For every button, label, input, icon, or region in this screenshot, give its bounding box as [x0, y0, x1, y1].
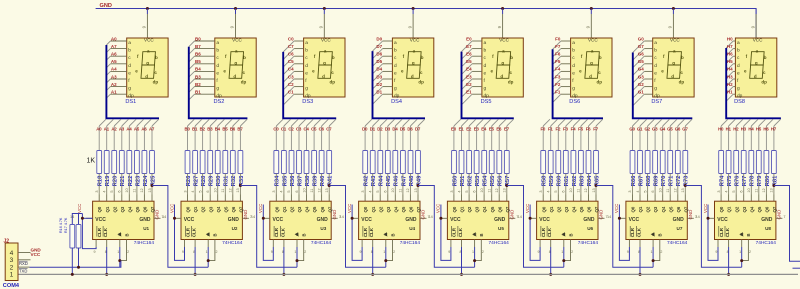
svg-text:74HC164: 74HC164	[667, 240, 688, 246]
svg-text:R34: R34	[275, 175, 281, 186]
svg-text:C3: C3	[296, 126, 302, 131]
pin 7 of U6	[598, 217, 605, 219]
junction R17 RXD line	[77, 266, 80, 269]
resistor R41	[327, 151, 332, 174]
pin 6 of U5	[476, 195, 478, 202]
svg-text:GND: GND	[243, 210, 248, 220]
svg-text:Q0: Q0	[186, 206, 191, 212]
svg-text:Q3: Q3	[653, 206, 658, 212]
resistor R19	[104, 151, 109, 174]
wire cascade U3 to U4	[329, 186, 386, 268]
resistor R64	[586, 151, 591, 174]
svg-text:Q2: Q2	[556, 206, 561, 212]
svg-text:VCC: VCC	[670, 38, 680, 43]
bus entry C2 DS3	[283, 87, 294, 98]
pin e of DS5	[472, 70, 482, 72]
bus entry B1 at resistor R27	[195, 119, 202, 126]
junction CLK U3	[282, 273, 285, 276]
bus entry H4 at resistor R78	[751, 119, 758, 126]
svg-text:A2: A2	[111, 126, 117, 131]
wire bus to resistor R51	[461, 126, 463, 151]
svg-text:R43: R43	[371, 175, 377, 186]
pin c of DS5	[472, 55, 482, 57]
pin 14 of U8	[708, 217, 715, 219]
svg-text:D4: D4	[392, 126, 398, 131]
svg-text:C0: C0	[273, 126, 279, 131]
resistor R22	[127, 151, 132, 174]
bus entry G2 DS7	[633, 87, 645, 99]
svg-text:R58: R58	[542, 175, 548, 186]
svg-text:C6: C6	[319, 126, 325, 131]
wire resistor R48 to U4	[409, 174, 411, 195]
wire bus to resistor R61	[565, 126, 567, 151]
bus entry G0 DS7	[633, 41, 645, 53]
svg-text:12: 12	[406, 188, 410, 192]
svg-text:A6: A6	[141, 126, 147, 131]
svg-text:R75: R75	[727, 175, 733, 186]
bus entry C2 at resistor R36	[291, 119, 298, 126]
pin names Q0-Q7 of U6	[541, 206, 599, 212]
svg-text:GND: GND	[421, 210, 426, 220]
wire B loop of U2	[208, 247, 215, 261]
pin d of DS3	[294, 63, 304, 65]
pin d of DS8	[733, 63, 735, 65]
wire resistor R40 to U3	[321, 174, 323, 195]
svg-text:H6: H6	[763, 126, 769, 131]
svg-text:3: 3	[95, 190, 99, 192]
resistor R21	[119, 151, 124, 174]
wire CLK of U5 to clock rail	[461, 247, 463, 274]
pin g of DS3	[294, 86, 304, 88]
svg-text:Q3: Q3	[208, 206, 213, 212]
wire bus to resistor R66	[632, 126, 634, 151]
bus entry B7 DS2	[189, 49, 195, 55]
svg-text:b: b	[510, 55, 513, 60]
svg-text:74HC164: 74HC164	[489, 240, 510, 246]
wire bus to resistor R22	[128, 126, 130, 151]
svg-text:13: 13	[148, 188, 152, 192]
wire resistor R47 to U4	[402, 174, 404, 195]
pin c of DS2	[195, 55, 215, 57]
pin 9 of U6	[539, 240, 541, 248]
bus entry E1 DS5	[462, 94, 473, 105]
svg-text:5: 5	[287, 190, 291, 192]
svg-text:7: 7	[783, 215, 785, 219]
resistor R75	[726, 151, 731, 174]
svg-text:R66: R66	[631, 175, 637, 186]
svg-text:VCC: VCC	[273, 217, 284, 223]
pin f of DS6	[561, 78, 571, 80]
svg-text:14: 14	[607, 215, 611, 219]
pin 1 of U2	[207, 240, 209, 248]
wire resistor R69 to U7	[654, 174, 656, 195]
svg-text:G4: G4	[638, 67, 645, 72]
bus entry H5 DS8	[726, 64, 733, 71]
wire R16 bottom to clock rail	[71, 248, 73, 274]
bus entry F5 at resistor R63	[581, 119, 588, 126]
svg-text:Q0: Q0	[452, 206, 457, 212]
bus entry B0 DS2	[189, 41, 195, 47]
segment figure of DS3	[318, 52, 332, 79]
bus entry A5 DS1	[106, 64, 110, 68]
svg-text:g: g	[654, 87, 657, 92]
svg-text:R39: R39	[313, 175, 319, 186]
svg-text:74HC164: 74HC164	[222, 240, 243, 246]
svg-text:H6: H6	[727, 52, 733, 57]
pin 12 of U2	[232, 195, 234, 202]
bus entry C5 DS3	[283, 64, 294, 75]
wire bus to resistor R52	[468, 126, 470, 151]
svg-text:U2: U2	[232, 226, 238, 231]
wire resistor R25 to U1	[151, 174, 153, 195]
svg-text:R60: R60	[557, 176, 563, 187]
pin 13 of U8	[773, 195, 775, 202]
wire VCC drop to DS4	[412, 9, 414, 15]
bus entry F6 at resistor R64	[589, 119, 596, 126]
svg-text:Q1: Q1	[105, 206, 110, 212]
svg-text:A: A	[562, 233, 567, 236]
svg-text:9: 9	[360, 250, 362, 254]
svg-text:A: A	[740, 233, 745, 236]
svg-text:G7: G7	[638, 44, 645, 49]
svg-text:G1: G1	[638, 90, 645, 95]
segment labels of DS8	[744, 48, 767, 84]
svg-text:b: b	[654, 48, 657, 54]
bus for DS2	[189, 47, 248, 119]
pin 6 of U7	[654, 195, 656, 202]
pin 8 of U1	[106, 240, 108, 248]
svg-text:Q4: Q4	[216, 206, 221, 212]
wire VCC net U4	[352, 205, 362, 261]
resistor R45	[385, 151, 390, 174]
svg-text:B5: B5	[222, 126, 228, 131]
bus entry D6 DS4	[373, 56, 383, 66]
wire bus to resistor R48	[409, 126, 411, 151]
svg-text:R35: R35	[282, 175, 288, 186]
wire resistor R20 to U1	[113, 174, 115, 195]
junction A B of U2	[207, 259, 210, 262]
svg-text:Q1: Q1	[460, 206, 465, 212]
wire bus to resistor R68	[647, 126, 649, 151]
svg-text:B3: B3	[195, 74, 201, 79]
junction CLK U6	[549, 273, 552, 276]
svg-text:Q4: Q4	[482, 206, 487, 212]
svg-text:1: 1	[561, 250, 563, 254]
pin 10 of U6	[572, 195, 574, 202]
svg-text:VCC: VCC	[539, 217, 550, 223]
junction A B of U8	[740, 259, 743, 262]
svg-text:dp: dp	[153, 79, 159, 84]
svg-text:3: 3	[450, 190, 454, 192]
bus entry H0 at resistor R74	[721, 119, 728, 126]
svg-text:14: 14	[340, 215, 344, 219]
pin 13 of U3	[328, 195, 330, 202]
svg-text:5: 5	[732, 190, 736, 192]
wire bus to resistor R77	[743, 126, 745, 151]
svg-text:D5: D5	[400, 126, 406, 131]
svg-text:G7: G7	[682, 126, 688, 131]
resistor R25	[150, 151, 155, 174]
pin d of DS6	[561, 63, 571, 65]
pin 13 of U2	[239, 195, 241, 202]
bus entry H3 at resistor R77	[744, 119, 751, 126]
resistor R70	[660, 151, 665, 174]
bus entry A6 at resistor R24	[144, 119, 151, 126]
svg-text:10: 10	[302, 188, 306, 192]
svg-text:R18: R18	[98, 175, 104, 186]
svg-text:H0: H0	[718, 126, 724, 131]
svg-text:R37: R37	[297, 176, 303, 187]
pin 7 of U1	[154, 217, 161, 219]
pin 9 of DS7	[672, 14, 674, 38]
resistor R48	[408, 151, 413, 174]
bus for DS3	[283, 52, 336, 118]
svg-text:GND: GND	[761, 217, 773, 223]
segment figure of DS1	[141, 52, 155, 79]
svg-text:g: g	[672, 61, 675, 66]
wire resistor R68 to U7	[647, 174, 649, 195]
svg-text:DS1: DS1	[125, 99, 136, 105]
wire bus to resistor R32	[232, 126, 234, 151]
svg-text:74HC164: 74HC164	[311, 240, 332, 246]
bus entry H3 DS8	[726, 79, 733, 86]
bus entry D2 DS4	[373, 87, 383, 97]
pin 3 of U2	[187, 195, 189, 202]
svg-text:2: 2	[10, 264, 14, 271]
wire resistor R61 to U6	[565, 174, 567, 195]
bus entry C0 at resistor R34	[276, 119, 283, 126]
segment labels of DS3	[312, 48, 335, 84]
svg-text:E2: E2	[466, 82, 472, 87]
svg-text:GND: GND	[673, 217, 685, 223]
bus entry C6 at resistor R40	[322, 119, 329, 126]
svg-text:Q6: Q6	[676, 206, 681, 212]
svg-text:U7: U7	[677, 226, 683, 231]
wire B loop of U6	[564, 247, 571, 261]
svg-text:R19: R19	[105, 175, 111, 186]
svg-text:CLK: CLK	[280, 227, 285, 237]
bus entry E4 DS5	[462, 71, 473, 82]
svg-text:B7: B7	[237, 126, 243, 131]
svg-text:Q0: Q0	[97, 206, 102, 212]
pin 4 of U1	[106, 195, 108, 202]
display DS1 body	[127, 38, 168, 97]
pin 11 of U7	[669, 195, 671, 202]
svg-text:2: 2	[571, 250, 573, 254]
resistor R65	[594, 151, 599, 174]
junction VCC at U7	[618, 217, 621, 220]
svg-text:1: 1	[651, 250, 653, 254]
svg-text:G4: G4	[660, 126, 666, 131]
svg-text:11: 11	[221, 189, 225, 193]
svg-text:4: 4	[636, 190, 640, 192]
svg-text:VCC: VCC	[321, 38, 331, 43]
svg-text:a: a	[484, 41, 487, 46]
svg-text:A: A	[118, 233, 123, 236]
wire bus to resistor R72	[677, 126, 679, 151]
svg-text:R38: R38	[305, 175, 311, 186]
pin 1 of U8	[741, 240, 743, 248]
bus entry E6 at resistor R56	[499, 119, 506, 126]
svg-text:Q5: Q5	[135, 206, 140, 212]
bus entry E0 DS5	[462, 41, 473, 52]
junction VCC at U6	[529, 217, 532, 220]
svg-text:11: 11	[310, 189, 314, 193]
pin b of DS6	[561, 48, 571, 50]
svg-text:VCC: VCC	[499, 38, 509, 43]
svg-text:d: d	[572, 63, 575, 69]
pin 8 of U8	[728, 240, 730, 248]
svg-text:6: 6	[206, 190, 210, 192]
svg-text:GND: GND	[688, 210, 693, 220]
pin 14 of U2	[175, 217, 182, 219]
bus entry D0 at resistor R42	[365, 119, 372, 126]
wire bus to resistor R53	[476, 126, 478, 151]
svg-text:A: A	[472, 233, 477, 236]
junction R16 clock rail	[71, 273, 74, 276]
segment labels of DS2	[223, 48, 246, 84]
svg-text:Q1: Q1	[638, 206, 643, 212]
bus entry B2 at resistor R28	[203, 119, 210, 126]
pin 8 of U2	[194, 240, 196, 248]
bus entry B1 DS2	[189, 94, 195, 100]
junction CLK U5	[460, 273, 463, 276]
pin 4 of U7	[639, 195, 641, 202]
svg-text:A: A	[295, 233, 300, 236]
svg-text:12: 12	[317, 188, 321, 192]
svg-text:e: e	[128, 71, 131, 76]
svg-text:Q4: Q4	[127, 206, 132, 212]
wire CLK of U6 to clock rail	[550, 247, 552, 274]
svg-text:e: e	[216, 71, 219, 76]
bus entry C6 DS3	[283, 56, 294, 67]
svg-text:R29: R29	[209, 175, 215, 186]
svg-text:b: b	[599, 55, 602, 60]
pin 2 of U7	[659, 240, 661, 248]
pin 12 of U4	[409, 195, 411, 202]
bus entry A4 at resistor R22	[129, 119, 136, 126]
svg-text:B: B	[746, 233, 751, 236]
svg-text:R70: R70	[661, 176, 667, 187]
wire cascade U5 to U6	[507, 186, 564, 268]
svg-text:G2: G2	[638, 82, 645, 87]
pin 9 of DS2	[235, 14, 237, 38]
bus entry D3 DS4	[373, 79, 383, 89]
svg-text:R67: R67	[638, 176, 644, 187]
wire resistor R65 to U6	[595, 174, 597, 195]
junction on GND rail above DS4	[412, 7, 415, 10]
svg-text:Q5: Q5	[579, 206, 584, 212]
svg-text:4: 4	[103, 190, 107, 192]
wire A input riser of U8	[741, 247, 743, 267]
svg-text:b: b	[305, 48, 308, 54]
bus entry F0 at resistor R58	[543, 119, 550, 126]
svg-text:5: 5	[554, 190, 558, 192]
svg-text:B7: B7	[195, 44, 201, 49]
svg-text:Q5: Q5	[312, 206, 317, 212]
svg-text:A5: A5	[134, 126, 140, 131]
resistor R17	[76, 225, 81, 249]
svg-text:A: A	[651, 233, 656, 236]
pin 5 of U3	[290, 195, 292, 202]
bus entry G6 DS7	[633, 56, 645, 67]
svg-text:g: g	[484, 87, 487, 92]
bus entry F4 at resistor R62	[573, 119, 580, 126]
bus entry C0 DS3	[283, 41, 294, 52]
junction VCC at U5	[439, 217, 442, 220]
bus entry F1 DS6	[553, 94, 561, 102]
wire VCC net U3	[263, 205, 273, 261]
wire resistor R38 to U3	[306, 174, 308, 195]
pin 9 of U5	[450, 240, 452, 248]
pin 3 of U3	[275, 195, 277, 202]
bus entry E5 DS5	[462, 64, 473, 75]
bus entry A3 DS1	[106, 79, 110, 83]
pin a of DS7	[644, 40, 652, 42]
pin 1 of U4	[385, 240, 387, 248]
pin a of DS5	[472, 40, 482, 42]
resistor R18	[97, 151, 102, 174]
svg-text:Q6: Q6	[587, 206, 592, 212]
display DS8 body	[735, 38, 776, 97]
svg-text:14: 14	[428, 215, 432, 219]
wire bus to resistor R33	[239, 126, 241, 151]
svg-text:C3: C3	[288, 74, 294, 79]
resistor R71	[668, 151, 673, 174]
svg-text:A2: A2	[111, 82, 117, 87]
bus entry D2 at resistor R44	[380, 119, 387, 126]
pin 4 of U2	[194, 195, 196, 202]
resistor R55	[489, 151, 494, 174]
svg-text:b: b	[243, 55, 246, 60]
svg-text:G0: G0	[629, 126, 635, 131]
svg-text:CLK: CLK	[458, 227, 463, 237]
pin 9 of DS5	[502, 14, 504, 38]
svg-text:D7: D7	[415, 126, 421, 131]
svg-text:DS2: DS2	[214, 99, 225, 105]
svg-text:a: a	[394, 41, 397, 46]
pin e of DS4	[383, 70, 393, 72]
bus entry H1 DS8	[726, 94, 733, 101]
bus entry G1 at resistor R67	[640, 119, 647, 126]
pin 5 of U1	[113, 195, 115, 202]
bus entry G0 at resistor R66	[633, 119, 640, 126]
svg-text:H5: H5	[756, 126, 762, 131]
svg-text:5: 5	[643, 190, 647, 192]
wire resistor R81 to U8	[773, 174, 775, 195]
svg-text:dp: dp	[679, 79, 685, 84]
svg-text:A: A	[384, 233, 389, 236]
junction VCC at U3	[262, 217, 265, 220]
svg-text:R74: R74	[720, 175, 726, 186]
resistor R47	[401, 151, 406, 174]
svg-text:C1: C1	[288, 90, 294, 95]
svg-text:E0: E0	[466, 36, 472, 41]
svg-text:GND: GND	[777, 210, 782, 220]
svg-text:2: 2	[660, 250, 662, 254]
svg-text:H2: H2	[727, 82, 733, 87]
wire resistor R67 to U7	[639, 174, 641, 195]
pin 3 of U1	[98, 195, 100, 202]
wire bus to resistor R56	[498, 126, 500, 151]
svg-text:C7: C7	[288, 44, 294, 49]
wire resistor R56 to U5	[498, 174, 500, 195]
svg-text:b: b	[216, 48, 219, 54]
svg-text:A7: A7	[149, 126, 155, 131]
resistor R39	[312, 151, 317, 174]
pin 11 of U2	[224, 195, 226, 202]
svg-text:2: 2	[482, 250, 484, 254]
